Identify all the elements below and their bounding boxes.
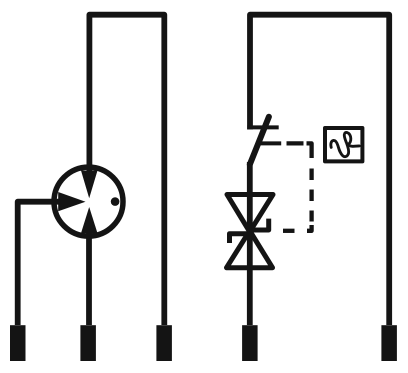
- theta sensor box: [325, 128, 362, 161]
- wire below motor circle: [86, 232, 92, 325]
- terminal pin 5: [381, 325, 397, 361]
- arrow top (pointing down): [81, 171, 98, 199]
- TVS upper triangle: [227, 195, 273, 232]
- dashed link: bottom corner: [307, 225, 312, 231]
- arrow bottom (pointing up): [81, 207, 98, 233]
- terminal pin 1: [10, 325, 26, 361]
- dot inside circle: [111, 197, 120, 206]
- TVS lower triangle: [227, 231, 273, 268]
- terminal pin 4: [242, 325, 258, 361]
- dashed link: vertical dash b: [309, 190, 313, 202]
- terminal pin 3: [156, 325, 172, 361]
- dashed link: top corner: [307, 143, 312, 158]
- dashed link: vertical dash c: [309, 211, 313, 222]
- dashed link: bottom run dash: [283, 229, 295, 233]
- motor/PTC circle symbol: [54, 167, 123, 236]
- switch fixed contact hook: [247, 125, 278, 129]
- dashed link: top run dash: [287, 141, 304, 145]
- TVS bar right hook (up): [250, 219, 269, 230]
- wire top loop right circuit: [250, 15, 389, 325]
- switch blade (thermal contact): [250, 117, 269, 165]
- wire left L from terminal X1 to motor arrow: [18, 202, 60, 325]
- TVS bar left hook (down): [230, 234, 250, 243]
- dashed link: vertical dash a: [309, 169, 313, 181]
- terminal pin 2: [80, 325, 96, 361]
- theta glyph: [331, 132, 359, 156]
- wire switch to TVS to terminal 4: [247, 162, 253, 325]
- arrow left (into center): [58, 192, 85, 211]
- actuator tick on blade: [259, 141, 281, 145]
- wire top loop left circuit: [89, 15, 164, 325]
